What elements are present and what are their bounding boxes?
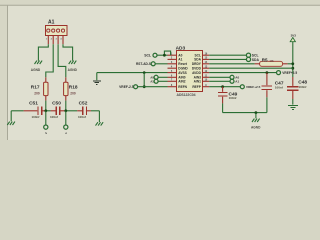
- svg-text:ADS122C04: ADS122C04: [177, 93, 196, 97]
- svg-text:RST-AD-S: RST-AD-S: [136, 62, 151, 66]
- svg-text:SDA: SDA: [252, 58, 260, 62]
- svg-text:AIN1: AIN1: [194, 80, 201, 84]
- svg-text:C50: C50: [52, 101, 61, 107]
- svg-text:100nf: 100nf: [50, 115, 58, 119]
- svg-text:AGND: AGND: [251, 126, 261, 130]
- svg-text:C52: C52: [79, 101, 88, 107]
- svg-text:100nf: 100nf: [275, 86, 283, 90]
- svg-text:SDA: SDA: [194, 58, 201, 62]
- svg-text:A1: A1: [178, 58, 182, 62]
- svg-text:AIN2: AIN2: [178, 80, 185, 84]
- svg-text:A1: A1: [48, 20, 55, 26]
- svg-text:REFP: REFP: [192, 85, 201, 89]
- svg-text:C51: C51: [29, 101, 38, 107]
- svg-text:REFN: REFN: [178, 85, 187, 89]
- svg-text:100nf: 100nf: [299, 85, 307, 89]
- svg-text:VREF+2.5: VREF+2.5: [246, 85, 261, 89]
- svg-text:100nf: 100nf: [32, 115, 40, 119]
- svg-text:R18: R18: [69, 85, 78, 91]
- svg-text:Reset: Reset: [178, 62, 188, 66]
- svg-text:AVSS: AVSS: [178, 71, 186, 75]
- svg-text:200: 200: [70, 92, 76, 96]
- svg-text:DRDY: DRDY: [192, 62, 202, 66]
- svg-text:100nf: 100nf: [229, 96, 237, 100]
- svg-text:R5: R5: [262, 57, 268, 62]
- svg-text:3V3: 3V3: [291, 34, 297, 38]
- svg-text:100nf: 100nf: [78, 115, 86, 119]
- svg-text:SCL: SCL: [144, 54, 151, 58]
- svg-text:R17: R17: [31, 85, 40, 91]
- svg-text:10k: 10k: [270, 59, 275, 63]
- svg-text:VREF+2.5: VREF+2.5: [282, 71, 297, 75]
- svg-text:AGND: AGND: [31, 68, 41, 72]
- svg-text:VREF-2.5: VREF-2.5: [119, 85, 134, 89]
- svg-text:AGND: AGND: [68, 68, 78, 72]
- svg-text:200: 200: [34, 92, 40, 96]
- svg-text:AVDD: AVDD: [192, 71, 201, 75]
- svg-text:DGND: DGND: [178, 67, 188, 71]
- svg-text:A1: A1: [235, 80, 239, 84]
- svg-text:DVDD: DVDD: [192, 67, 202, 71]
